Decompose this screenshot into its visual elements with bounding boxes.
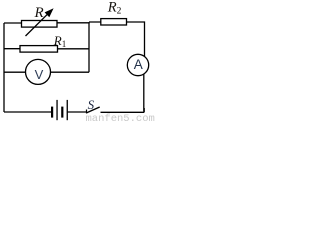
wire top-left to rheostat	[4, 22, 22, 24]
wire rheostat right to top junction	[57, 22, 90, 24]
rheostat R body	[22, 21, 58, 28]
switch left contact	[86, 110, 88, 114]
battery	[51, 100, 68, 120]
wire voltmeter horizontal	[4, 71, 89, 73]
svg-text:S: S	[88, 97, 95, 112]
resistor R1 body	[20, 46, 58, 53]
wire junction vertical	[88, 22, 90, 72]
wire R1 right	[58, 48, 90, 50]
wire left vertical	[3, 23, 5, 112]
ammeter A circle	[127, 54, 148, 75]
wire bottom-left to battery	[4, 111, 52, 113]
svg-text:A: A	[134, 57, 143, 72]
svg-text:R: R	[34, 5, 44, 21]
voltmeter V circle	[26, 59, 51, 84]
wire R1 left	[4, 48, 21, 50]
svg-text:V: V	[35, 67, 44, 82]
resistor R2 body	[101, 19, 127, 25]
wire bottom-right corner	[143, 108, 145, 112]
wire ammeter bottom vertical	[143, 74, 145, 112]
wire battery to switch	[68, 111, 87, 113]
wire switch to bottom-right	[101, 111, 145, 113]
svg-text:manfen5.com: manfen5.com	[86, 113, 155, 122]
wire R2 branch top	[89, 22, 145, 57]
rheostat R arrow	[26, 8, 54, 36]
switch S lever	[86, 107, 100, 113]
